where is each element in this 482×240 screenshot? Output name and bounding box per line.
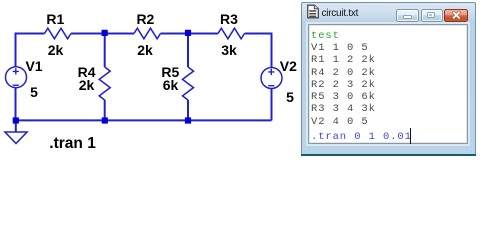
- maximize button: [421, 9, 443, 22]
- wire: bottom rail: [16, 119, 272, 121]
- label R1: [55, 12, 73, 26]
- wire: node 2 down to R4: [104, 34, 106, 68]
- voltage source V1: [6, 67, 27, 88]
- node junction: ground node mid (R4): [102, 117, 108, 123]
- ground: [5, 132, 27, 144]
- wire: top rail R3 to top-right corner down to V2: [245, 34, 272, 68]
- schematic SVG: [0, 0, 482, 165]
- label R3: [229, 12, 247, 26]
- window content area: [308, 24, 468, 144]
- netlist line 2: V1: [311, 42, 369, 54]
- resistor R4: [99, 67, 110, 100]
- voltage source V2: [261, 68, 282, 89]
- text cursor: [410, 128, 412, 144]
- netlist line 8: V2: [311, 116, 369, 128]
- netlist line 3: R1: [311, 54, 376, 66]
- wire: top rail R2 to node 3: [161, 33, 219, 35]
- label R2 value 2k: [145, 43, 161, 57]
- wire: top-left corner + left vertical to V1: [16, 34, 45, 67]
- node junction: ground node right (R5): [185, 117, 191, 123]
- label R2: [145, 12, 163, 26]
- wire: V2 bottom to bottom-right corner: [271, 89, 273, 121]
- label V1: [34, 59, 51, 73]
- label V2 value 5: [290, 90, 298, 104]
- resistor R2: [134, 28, 161, 39]
- label R1 value 2k: [56, 43, 72, 57]
- label R4 value 2k: [87, 78, 103, 92]
- netlist line 4: R4: [311, 67, 376, 79]
- node junction: node 3 top: [185, 30, 191, 36]
- label R5 value 6k: [171, 78, 187, 92]
- node junction: ground node left: [13, 117, 19, 123]
- wire: V1 bottom to bottom rail: [15, 88, 17, 120]
- netlist line 6: R5: [311, 91, 376, 103]
- wire: top rail R1 to node 2: [71, 33, 134, 35]
- netlist line 9: .tran directive: [311, 131, 412, 143]
- minimize button: [396, 9, 419, 22]
- label R4: [87, 65, 105, 79]
- resistor R3: [218, 28, 245, 39]
- node junction: node 2 top: [102, 30, 108, 36]
- window title icon (document): [306, 4, 320, 19]
- label V2: [288, 59, 305, 73]
- label R5: [170, 65, 188, 79]
- netlist line 5: R2: [311, 79, 376, 91]
- window title text: [322, 9, 359, 19]
- netlist window frame: [301, 2, 476, 155]
- resistor R1: [45, 28, 72, 39]
- wire: ground stem: [15, 120, 17, 131]
- label R3 value 3k: [229, 43, 245, 57]
- netlist line 1: title 'test': [311, 30, 340, 42]
- resistor R5: [183, 67, 194, 100]
- close button: [444, 9, 468, 22]
- label .tran 1 directive: [49, 136, 96, 152]
- wire: node 3 down to R5: [187, 34, 189, 68]
- label V1 value 5: [34, 85, 42, 99]
- netlist window bottom dark edge: [301, 154, 476, 156]
- wire: R5 bottom to bottom rail: [187, 100, 189, 120]
- netlist line 7: R3: [311, 103, 376, 115]
- wire: R4 bottom to bottom rail: [104, 100, 106, 120]
